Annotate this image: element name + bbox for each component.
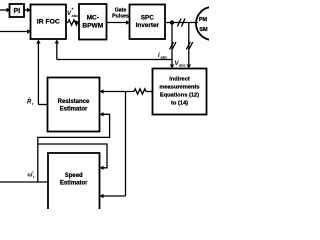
svg-text:IR FOC: IR FOC [37, 19, 60, 26]
svg-text:Inverter: Inverter [136, 22, 160, 29]
svg-text:Indirect: Indirect [169, 77, 190, 83]
svg-text:Resistance: Resistance [58, 99, 90, 105]
svg-text:BPWM: BPWM [82, 23, 103, 30]
svg-text:to (14): to (14) [171, 101, 188, 107]
svg-text:MC-: MC- [87, 15, 99, 22]
svg-text:abc: abc [179, 63, 187, 68]
svg-text:PM: PM [199, 17, 208, 23]
svg-text:SM: SM [199, 27, 208, 33]
svg-text:abc: abc [72, 13, 80, 18]
svg-text:Estimator: Estimator [60, 181, 88, 187]
svg-text:measurements: measurements [159, 85, 199, 91]
svg-text:SPC: SPC [141, 15, 155, 22]
svg-text:Pulses: Pulses [112, 14, 129, 20]
svg-text:Equations (12): Equations (12) [160, 93, 199, 99]
svg-text:Speed: Speed [65, 173, 83, 179]
svg-text:abc: abc [161, 55, 169, 60]
svg-text:PI: PI [13, 8, 20, 15]
svg-text:Estimator: Estimator [60, 107, 88, 113]
